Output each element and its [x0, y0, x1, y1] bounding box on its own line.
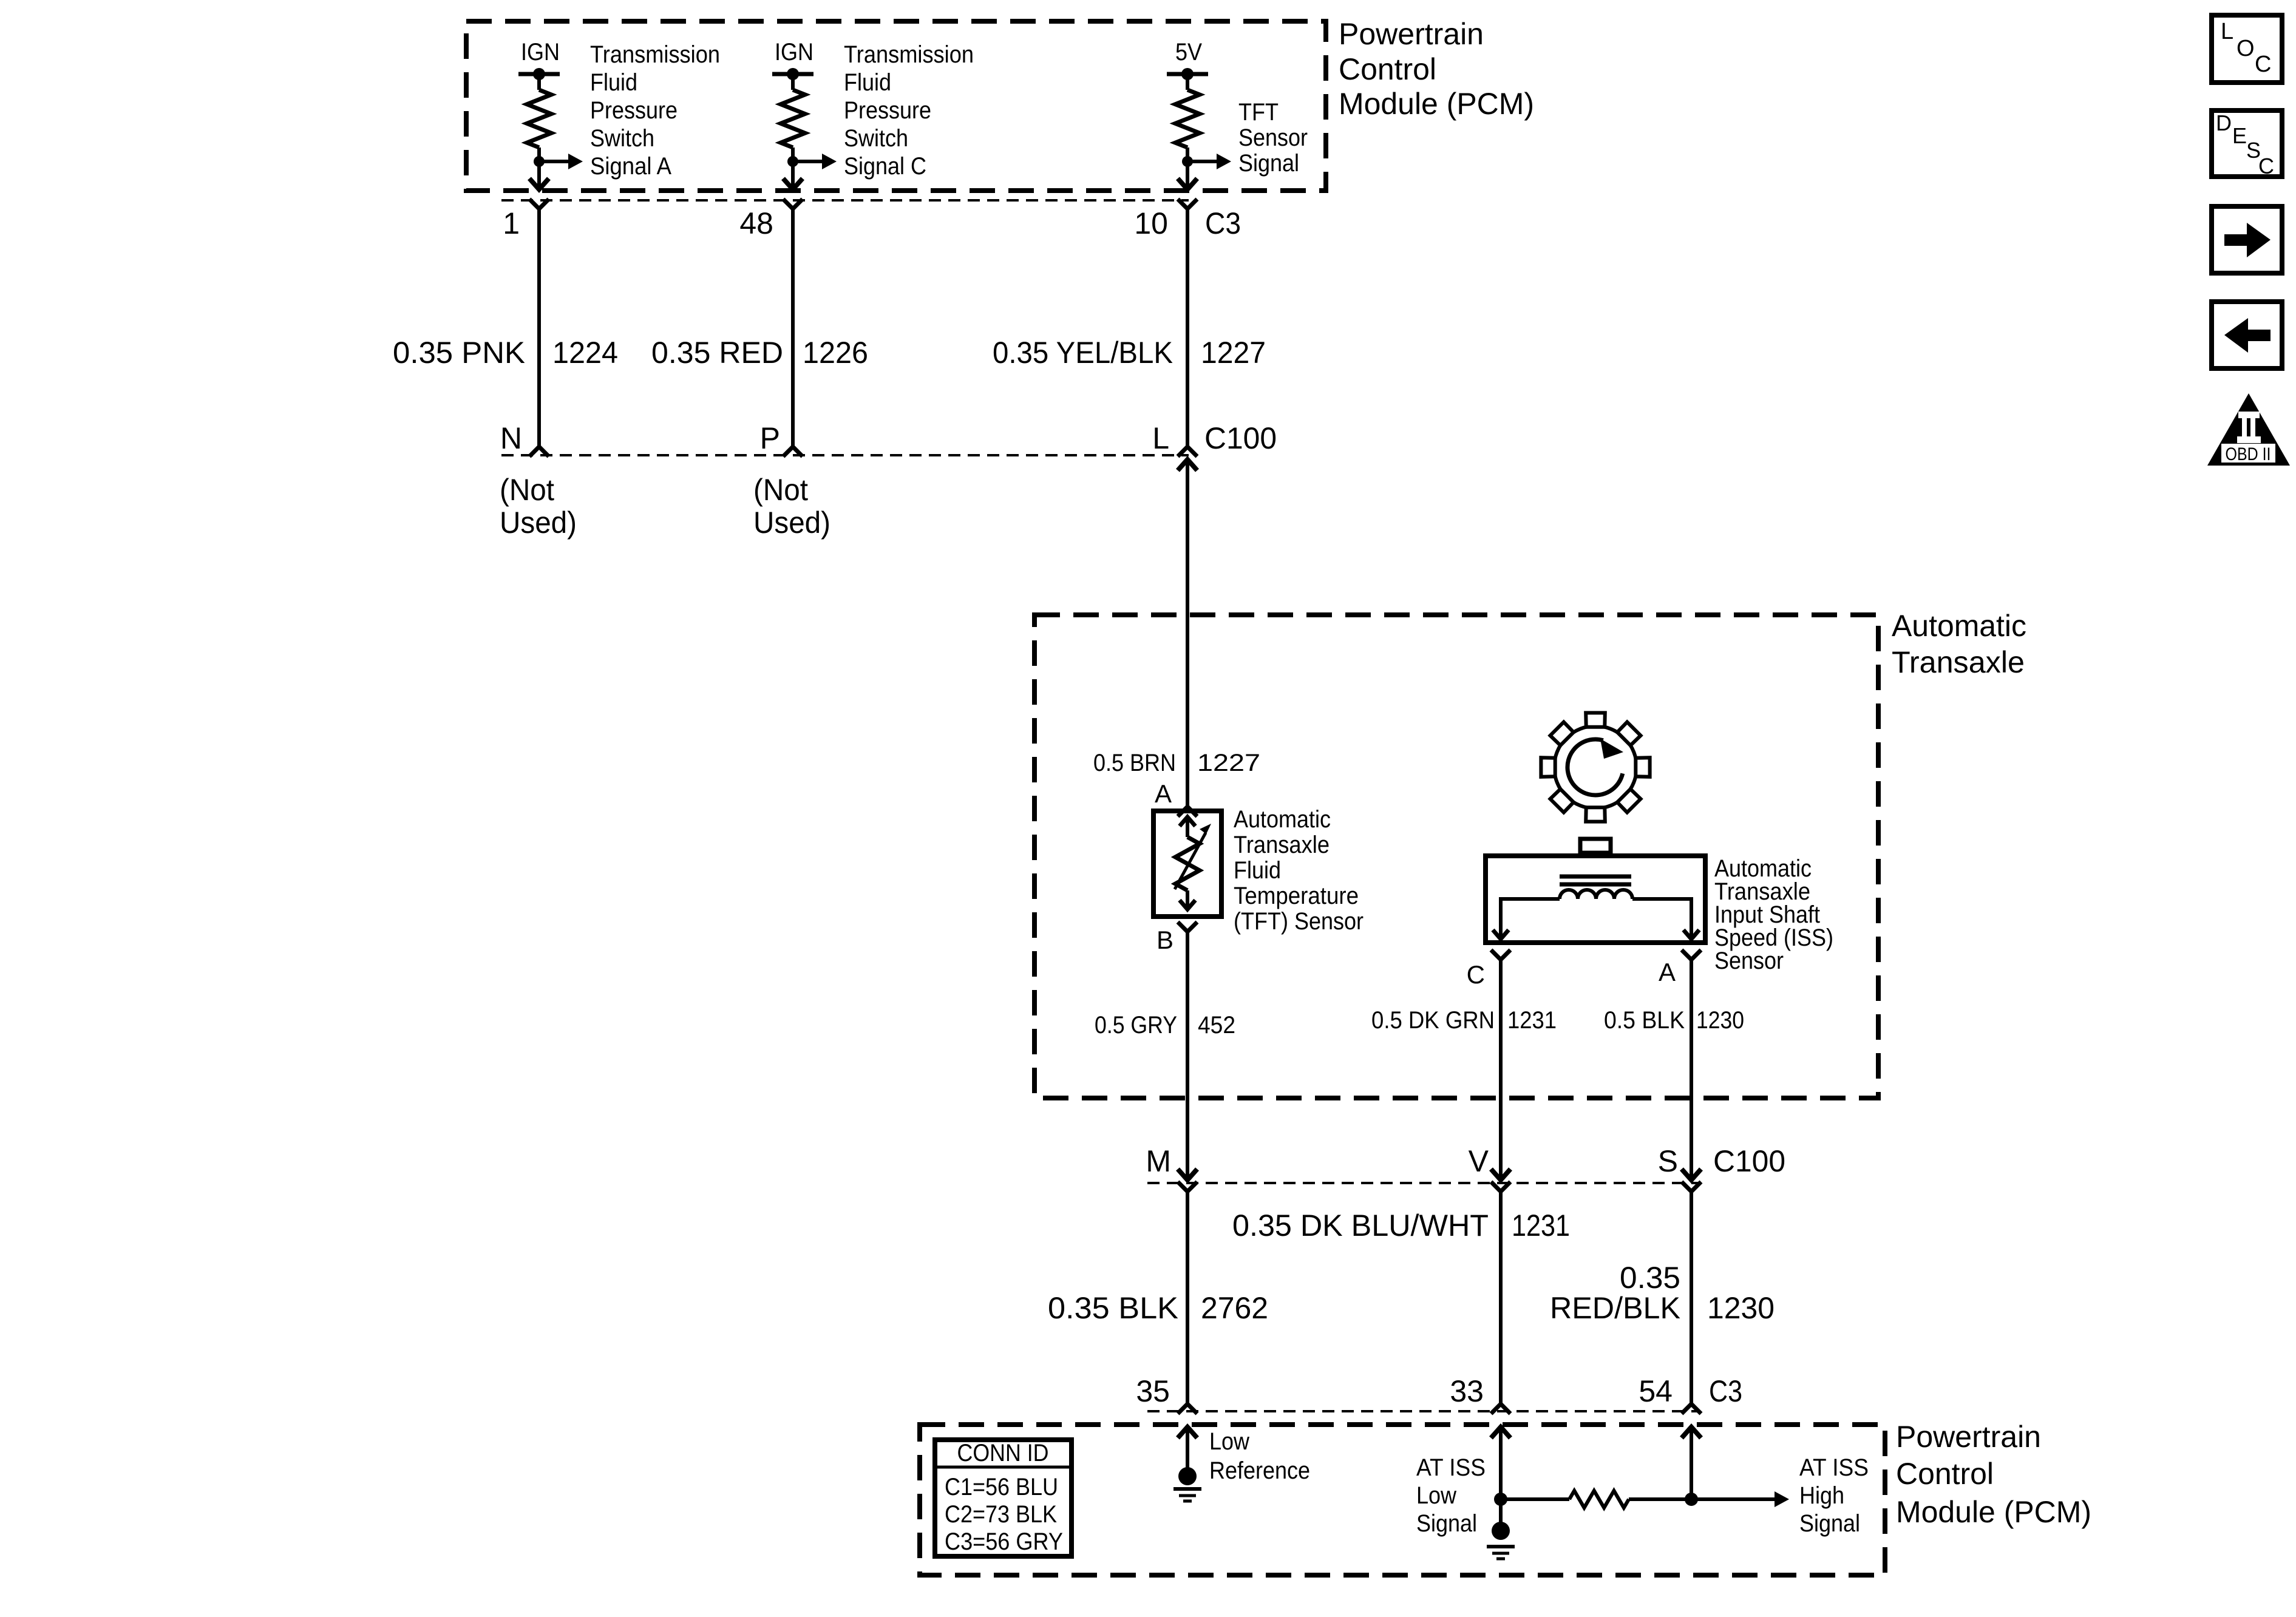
connector chevron ISS pin C [1491, 950, 1510, 960]
arrowhead down at PCM edge [529, 178, 549, 189]
svg-text:Signal A: Signal A [590, 153, 671, 180]
wire 0.5 BLK 1230 [1690, 960, 1693, 1180]
arrowhead up pin 33 [1491, 1427, 1510, 1438]
svg-text:Used): Used) [500, 506, 577, 540]
svg-text:Signal C: Signal C [844, 153, 926, 180]
svg-text:1230: 1230 [1696, 1007, 1744, 1034]
svg-text:S: S [1658, 1144, 1678, 1178]
svg-text:Low: Low [1416, 1482, 1456, 1509]
node 5V junction [1181, 68, 1194, 80]
connector C100 chevron [1491, 1182, 1510, 1192]
harness wire to C3 [1690, 1192, 1693, 1404]
arrow to signal label [568, 154, 583, 169]
svg-text:OBD II: OBD II [2226, 444, 2271, 464]
svg-text:TFT: TFT [1238, 99, 1279, 126]
icon LOC [2212, 15, 2282, 83]
svg-text:L: L [1152, 421, 1169, 455]
connector C3 (top) dashed line [501, 199, 1189, 202]
resistor (PCM pull-up 1) [527, 90, 551, 147]
svg-text:54: 54 [1639, 1374, 1673, 1408]
gear rotation arrow [1567, 739, 1623, 795]
svg-text:1231: 1231 [1507, 1007, 1557, 1034]
arrowhead up pin 54 [1682, 1427, 1701, 1438]
svg-text:P: P [760, 421, 780, 455]
svg-text:E: E [2232, 123, 2247, 148]
wire AT ISS high [1690, 1427, 1693, 1499]
svg-text:(Not: (Not [753, 473, 808, 507]
wire (TFT resistor top) [1186, 817, 1189, 837]
svg-text:V: V [1469, 1144, 1489, 1178]
svg-text:0.35 RED: 0.35 RED [651, 336, 783, 370]
svg-text:Low: Low [1209, 1428, 1249, 1455]
ground symbol (low reference) [1173, 1487, 1201, 1491]
svg-text:2762: 2762 [1201, 1291, 1268, 1325]
arrow to signal label [1217, 154, 1231, 169]
connector chevron TFT pin A [1178, 807, 1197, 816]
ground node dot (AT ISS low) [1492, 1522, 1510, 1540]
svg-text:Module (PCM): Module (PCM) [1339, 87, 1534, 121]
svg-text:(Not: (Not [500, 473, 554, 507]
connector C100 (bottom) dashed line [1147, 1182, 1700, 1184]
svg-text:Transmission: Transmission [590, 41, 720, 68]
svg-text:C: C [2258, 154, 2274, 178]
wire signal tap horizontal [793, 160, 822, 163]
svg-text:Pressure: Pressure [844, 97, 931, 124]
wire [537, 147, 541, 190]
ISS core lines [1560, 875, 1631, 879]
svg-text:Module (PCM): Module (PCM) [1896, 1495, 2091, 1529]
svg-text:35: 35 [1136, 1374, 1170, 1408]
IGN feed bar [772, 72, 813, 76]
svg-text:O: O [2237, 36, 2255, 61]
svg-text:AT ISS: AT ISS [1416, 1454, 1486, 1481]
arrowhead up (TFT resistor) [1180, 817, 1195, 826]
wire 0.5 DK GRN 1231 [1499, 960, 1503, 1180]
svg-text:Powertrain: Powertrain [1896, 1420, 2041, 1454]
svg-text:33: 33 [1450, 1374, 1484, 1408]
svg-text:Fluid: Fluid [1234, 857, 1281, 884]
arrowhead up pin L [1178, 459, 1197, 470]
svg-text:Switch: Switch [844, 125, 908, 152]
svg-text:C3: C3 [1205, 206, 1241, 240]
connector C3 pin chevron [529, 199, 549, 209]
svg-text:B: B [1156, 926, 1173, 954]
svg-text:Transaxle: Transaxle [1234, 832, 1330, 858]
wire [1186, 147, 1189, 190]
wire 0.5 BRN 1227 to TFT sensor [1186, 459, 1189, 807]
connector C3 chevron (bottom) [1178, 1404, 1197, 1414]
wire to ground (low reference) [1186, 1427, 1189, 1468]
svg-text:C: C [1467, 960, 1485, 989]
wire AT ISS low [1499, 1427, 1503, 1499]
gear icon (input shaft) [1554, 726, 1637, 808]
svg-text:Pressure: Pressure [590, 97, 678, 124]
ISS coil leads [1501, 899, 1560, 937]
connector C100 (mid) dashed line [501, 454, 1189, 456]
connector chevron ISS pin A [1682, 950, 1701, 960]
svg-text:0.5 BLK: 0.5 BLK [1604, 1007, 1685, 1034]
5V feed bar [1167, 72, 1208, 76]
connector C3 pin chevron [1178, 199, 1197, 209]
wire AT ISS internal right [1629, 1497, 1775, 1501]
ground symbol (AT ISS low) [1487, 1545, 1515, 1548]
svg-text:Reference: Reference [1209, 1457, 1310, 1484]
svg-text:(TFT) Sensor: (TFT) Sensor [1234, 908, 1364, 935]
arrowhead up pin 35 [1178, 1427, 1197, 1438]
connector C100 chevron [1178, 1182, 1197, 1192]
ISS coil [1560, 890, 1632, 899]
svg-text:Temperature: Temperature [1234, 883, 1359, 909]
svg-text:L: L [2221, 19, 2233, 44]
arrowhead down at C100 [1682, 1169, 1701, 1180]
svg-text:Transmission: Transmission [844, 41, 974, 68]
arrowhead down ISS lead A [1683, 930, 1699, 939]
svg-text:Signal: Signal [1238, 150, 1299, 177]
svg-text:C3: C3 [1709, 1374, 1742, 1408]
svg-text:Sensor: Sensor [1714, 947, 1784, 974]
wire [537, 74, 541, 90]
resistor (PCM pull-up 3) [1175, 90, 1200, 147]
wire 0.35 RED 1226 [791, 209, 795, 447]
svg-text:IGN: IGN [521, 39, 560, 66]
svg-text:1224: 1224 [552, 336, 618, 370]
wire [1186, 74, 1189, 90]
svg-text:Switch: Switch [590, 125, 654, 152]
PCM module box (bottom, dashed) [920, 1425, 1885, 1575]
node AT ISS low junction [1494, 1493, 1507, 1506]
svg-text:A: A [1659, 958, 1676, 986]
wire 0.5 GRY 452 [1186, 932, 1189, 1180]
wire 0.35 YEL/BLK 1227 [1186, 209, 1189, 447]
svg-text:10: 10 [1134, 206, 1168, 240]
svg-text:C3=56 GRY: C3=56 GRY [945, 1528, 1063, 1555]
connector C3 chevron (bottom) [1491, 1404, 1510, 1414]
variable-resistor diagonal arrow [1175, 833, 1206, 889]
variable resistor element (TFT) [1175, 837, 1200, 890]
svg-text:Fluid: Fluid [844, 69, 891, 96]
svg-text:RED/BLK: RED/BLK [1550, 1291, 1680, 1325]
arrow to AT ISS High Signal [1775, 1491, 1789, 1507]
wire to ground (AT ISS low) [1499, 1499, 1503, 1522]
svg-text:Powertrain: Powertrain [1339, 17, 1484, 51]
arrow to signal label [822, 154, 837, 169]
icon forward arrow [2212, 206, 2282, 273]
CONN ID table [935, 1440, 1072, 1556]
node AT ISS high junction [1685, 1493, 1698, 1506]
svg-text:0.5 BRN: 0.5 BRN [1093, 750, 1176, 776]
ground node dot (low reference) [1178, 1467, 1197, 1485]
node IGN junction [787, 68, 799, 80]
arrowhead down (TFT resistor) [1180, 900, 1195, 909]
wire 0.35 PNK 1224 [537, 209, 541, 447]
svg-text:Automatic: Automatic [1234, 806, 1331, 833]
ISS sensor mounting tab [1580, 839, 1611, 853]
wire signal tap horizontal [1187, 160, 1217, 163]
wire [791, 147, 795, 190]
svg-text:452: 452 [1198, 1012, 1235, 1039]
svg-text:0.35 PNK: 0.35 PNK [393, 336, 525, 370]
svg-text:1230: 1230 [1707, 1291, 1775, 1325]
connector C3 (bottom) dashed line [1147, 1410, 1700, 1412]
svg-text:A: A [1155, 779, 1172, 808]
icon OBD II triangle [2207, 393, 2290, 466]
svg-text:M: M [1146, 1144, 1171, 1178]
connector C3 pin chevron [783, 199, 803, 209]
svg-text:C1=56 BLU: C1=56 BLU [945, 1474, 1058, 1500]
wire signal tap horizontal [539, 160, 568, 163]
svg-text:Signal: Signal [1799, 1510, 1860, 1537]
svg-text:0.5 GRY: 0.5 GRY [1095, 1012, 1177, 1039]
connector C3 chevron (bottom) [1682, 1404, 1701, 1414]
arrowhead down at PCM edge [1178, 178, 1197, 189]
svg-text:1226: 1226 [803, 336, 868, 370]
svg-text:Control: Control [1896, 1457, 1994, 1491]
wire (TFT resistor bottom) [1186, 890, 1189, 909]
svg-text:0.35 YEL/BLK: 0.35 YEL/BLK [993, 336, 1173, 370]
svg-text:Used): Used) [753, 506, 830, 540]
svg-text:1227: 1227 [1201, 336, 1266, 370]
svg-text:Fluid: Fluid [590, 69, 637, 96]
Automatic Transaxle box (dashed) [1034, 615, 1878, 1098]
connector C100 pin L chevron [1178, 447, 1197, 456]
arrowhead down ISS lead C [1493, 930, 1509, 939]
wire AT ISS internal left [1501, 1497, 1569, 1501]
node signal tap [1182, 156, 1193, 167]
svg-text:AT ISS: AT ISS [1799, 1454, 1869, 1481]
TFT sensor box [1153, 811, 1221, 917]
connector C100 pin P chevron [783, 447, 803, 456]
node signal tap [787, 156, 798, 167]
icon back arrow [2212, 302, 2282, 368]
PCM module box (top, dashed) [466, 21, 1326, 191]
harness wire to C3 [1186, 1192, 1189, 1404]
svg-text:48: 48 [739, 206, 773, 240]
harness wire to C3 [1499, 1192, 1503, 1404]
connector C100 pin N chevron [529, 447, 549, 456]
IGN feed bar [518, 72, 560, 76]
resistor (AT ISS termination) [1569, 1491, 1629, 1508]
svg-text:1227: 1227 [1197, 750, 1260, 776]
node signal tap [534, 156, 545, 167]
svg-text:C: C [2255, 52, 2271, 77]
svg-text:C100: C100 [1713, 1144, 1785, 1178]
wire [791, 74, 795, 90]
svg-text:CONN ID: CONN ID [957, 1440, 1049, 1466]
node IGN junction [533, 68, 545, 80]
arrowhead down at PCM edge [783, 178, 803, 189]
svg-text:N: N [500, 421, 522, 455]
svg-text:0.5 DK GRN: 0.5 DK GRN [1371, 1007, 1495, 1034]
svg-text:Transaxle: Transaxle [1892, 645, 2025, 679]
svg-text:Automatic: Automatic [1892, 609, 2026, 643]
svg-text:IGN: IGN [775, 39, 813, 66]
svg-text:Signal: Signal [1416, 1510, 1477, 1537]
svg-text:1231: 1231 [1512, 1209, 1570, 1242]
arrowhead down at C100 [1178, 1169, 1197, 1180]
connector C100 chevron [1682, 1182, 1701, 1192]
svg-text:0.35: 0.35 [1620, 1261, 1680, 1295]
svg-text:0.35 DK BLU/WHT: 0.35 DK BLU/WHT [1232, 1209, 1489, 1242]
svg-text:Control: Control [1339, 52, 1436, 86]
svg-text:1: 1 [503, 206, 520, 240]
svg-text:D: D [2216, 110, 2232, 135]
arrowhead down at C100 [1491, 1169, 1510, 1180]
svg-text:5V: 5V [1175, 39, 1202, 66]
svg-text:0.35 BLK: 0.35 BLK [1048, 1291, 1178, 1325]
svg-text:Sensor: Sensor [1238, 124, 1308, 151]
ISS sensor box [1486, 856, 1705, 943]
svg-text:High: High [1799, 1482, 1844, 1509]
resistor (PCM pull-up 2) [781, 90, 805, 147]
icon DESC [2212, 110, 2282, 177]
svg-text:C100: C100 [1204, 421, 1277, 455]
connector chevron TFT pin B [1178, 922, 1197, 932]
svg-text:C2=73 BLK: C2=73 BLK [945, 1501, 1057, 1528]
